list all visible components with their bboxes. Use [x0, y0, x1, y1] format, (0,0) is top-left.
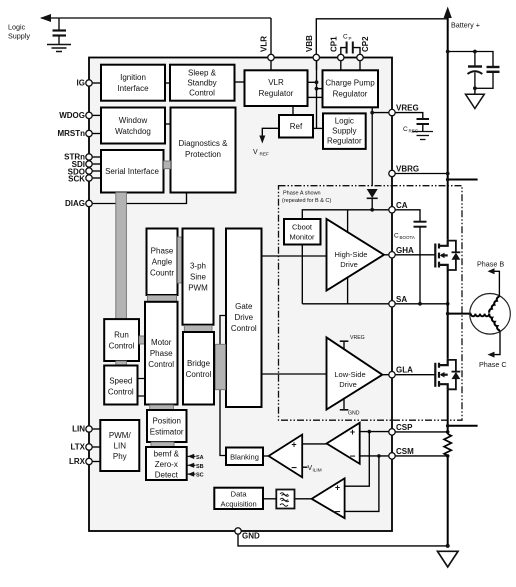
svg-text:Drive: Drive [339, 380, 357, 389]
wire Sleep to VLR Regulator [235, 81, 245, 83]
dashed phase box [279, 186, 463, 421]
op-amp Low-Side Drive [327, 337, 383, 409]
svg-text:IG: IG [77, 79, 85, 88]
wire CP2 stub [353, 48, 360, 55]
wire SDO [89, 170, 101, 172]
block VLR Regulator [245, 70, 308, 106]
svg-text:Drive: Drive [340, 260, 358, 269]
wire LIN [89, 428, 100, 430]
block Serial Interface [101, 150, 164, 193]
svg-text:Supply: Supply [8, 32, 30, 41]
svg-text:CP2: CP2 [361, 36, 370, 52]
wire CSP to data amp [345, 432, 370, 487]
svg-text:Speed: Speed [109, 377, 132, 386]
svg-text:Regulator: Regulator [333, 90, 368, 99]
svg-text:Motor: Motor [151, 338, 172, 347]
block Diagnostics & Protection [171, 108, 236, 193]
svg-text:Phase: Phase [150, 349, 173, 358]
svg-text:Data: Data [231, 490, 248, 499]
svg-text:SCK: SCK [68, 175, 85, 184]
wire CSM pin to shunt [392, 455, 448, 457]
block Charge Pump Regulator [323, 70, 379, 107]
wire IG [89, 82, 101, 84]
wire VREG to CREG [392, 113, 423, 119]
transistor Q low-side [435, 359, 447, 390]
wire VREF arrow [262, 128, 279, 137]
svg-text:+: + [350, 427, 355, 437]
wire gate drive to blanking [220, 316, 226, 456]
pin IG [86, 80, 92, 86]
wire GHA output [384, 254, 435, 256]
junction dot [315, 80, 319, 84]
svg-text:−: − [350, 452, 356, 463]
svg-text:C: C [343, 34, 348, 41]
wire phase A to motor [448, 313, 472, 315]
svg-text:C: C [394, 233, 399, 240]
gray connector bridge to gate drive [215, 344, 225, 389]
svg-text:DIAG: DIAG [65, 199, 85, 208]
wire SDI [89, 163, 101, 165]
svg-text:SA: SA [396, 295, 407, 304]
svg-text:Serial Interface: Serial Interface [105, 167, 159, 176]
pin MRSTn [86, 130, 92, 136]
svg-text:Phase B: Phase B [477, 260, 504, 269]
capacitor bulk electrolytic [468, 52, 483, 89]
svg-text:Ignition: Ignition [120, 73, 146, 82]
wire LRX [89, 461, 100, 463]
svg-text:Watchdog: Watchdog [115, 127, 151, 136]
wire VLR to rail [270, 18, 272, 55]
svg-text:CSM: CSM [396, 447, 414, 456]
svg-text:C: C [403, 126, 408, 133]
gray connector serial to diagnostics [164, 161, 171, 169]
svg-text:CA: CA [396, 201, 408, 210]
pin CA [389, 207, 395, 213]
svg-text:Regulator: Regulator [327, 137, 362, 146]
wire STRn [89, 156, 101, 158]
svg-text:Zero-x: Zero-x [155, 460, 178, 469]
pin STRn [86, 154, 92, 160]
wire WDOG [89, 114, 101, 116]
diode bootstrap [367, 189, 378, 198]
svg-text:Countr: Countr [150, 269, 174, 278]
block Speed Control [104, 366, 137, 405]
svg-text:Phase A shown: Phase A shown [283, 191, 321, 197]
svg-text:LRX: LRX [69, 457, 86, 466]
svg-text:Bridge: Bridge [187, 359, 211, 368]
wire CA to high side supply [347, 210, 349, 233]
arrow Logic Supply [40, 14, 51, 22]
svg-text:VLR: VLR [260, 36, 269, 52]
wire: Logic Supply rail [41, 17, 271, 19]
block Cboot Monitor [284, 219, 321, 245]
svg-text:SC: SC [196, 473, 204, 479]
svg-text:Drive: Drive [234, 313, 253, 322]
svg-text:Control: Control [109, 342, 135, 351]
svg-text:(repeated for B & C): (repeated for B & C) [282, 198, 331, 204]
wire VLR pin to VLR Regulator [270, 61, 272, 71]
svg-text:VREG: VREG [350, 335, 365, 341]
gray connector sine to bridge [184, 326, 212, 332]
pin VREG [389, 109, 395, 115]
svg-text:Diagnostics &: Diagnostics & [179, 139, 229, 148]
svg-text:−: − [291, 463, 297, 474]
capacitor CBOOTA [414, 222, 427, 227]
wire CP1 stub [341, 48, 346, 55]
svg-text:Phy: Phy [113, 452, 127, 461]
svg-text:High-Side: High-Side [335, 250, 368, 259]
block Ignition Interface [101, 65, 165, 101]
wire VLR right to VBB vertical [308, 81, 317, 83]
svg-text:Sleep &: Sleep & [188, 69, 217, 78]
svg-text:P: P [349, 36, 352, 41]
phase B lead [493, 271, 500, 296]
svg-text:Cboot: Cboot [292, 223, 313, 232]
svg-text:Logic: Logic [8, 23, 26, 32]
svg-text:GHA: GHA [396, 246, 414, 255]
svg-text:REG: REG [409, 129, 419, 134]
block Bridge Control [183, 332, 214, 405]
gray bus serial interface [116, 193, 127, 320]
wire VBRG to battery rail [392, 173, 448, 175]
pin SCK [86, 175, 92, 181]
wire SCK [89, 177, 101, 179]
svg-text:Acquisition: Acquisition [220, 500, 256, 509]
pin CP1 [338, 54, 344, 60]
svg-text:Supply: Supply [332, 127, 356, 136]
capacitor CP [347, 42, 353, 54]
wire Ignition to Sleep [165, 82, 170, 84]
block Motor Phase Control [145, 302, 178, 405]
svg-text:Control: Control [108, 388, 134, 397]
body diode Q high-side [448, 241, 461, 270]
svg-text:REF: REF [260, 152, 270, 157]
block Phase Angle Countr [147, 229, 178, 296]
wire GLA output [382, 374, 435, 376]
wire low side drive input [262, 373, 327, 375]
arrows SA SB SC into bemf [187, 456, 196, 474]
ground triangle battery caps [466, 88, 485, 108]
arrow battery top [444, 7, 452, 19]
wire VLR to Charge Pump [308, 96, 323, 98]
pin SDO [86, 168, 92, 174]
capacitor CREG [417, 119, 430, 124]
wire bridge rail stub to other phases [448, 179, 478, 181]
wire diode to CA [371, 198, 373, 210]
block Blanking [226, 448, 263, 466]
pin DIAG [86, 200, 92, 206]
wire charge pump to VREG [371, 107, 373, 186]
pin SA [389, 301, 395, 307]
op-amp sense amp [327, 423, 360, 464]
svg-text:GND: GND [242, 532, 260, 541]
resistor R sense [444, 434, 451, 456]
wire battery decoupling branch [448, 52, 493, 67]
ground triangle main [438, 551, 459, 567]
VREG stub low side [343, 342, 345, 350]
gray connector motor phase to position [150, 405, 174, 410]
wire GND pin to ground [238, 531, 448, 546]
svg-text:VLR: VLR [268, 78, 284, 87]
block bemf Zero-x Detect [146, 447, 187, 480]
pin WDOG [86, 112, 92, 118]
svg-text:CSP: CSP [396, 423, 413, 432]
svg-text:Logic: Logic [335, 117, 354, 126]
wire speed to motor phase (2 short) [138, 379, 146, 397]
svg-text:Angle: Angle [152, 258, 173, 267]
svg-text:Standby: Standby [187, 79, 216, 88]
svg-text:VREG: VREG [396, 104, 419, 113]
main IC box [89, 58, 392, 532]
svg-text:LTX: LTX [70, 443, 85, 452]
capacitor C logic supply [53, 18, 67, 44]
svg-text:ILIM: ILIM [313, 467, 322, 472]
battery rail [447, 14, 449, 240]
gray connector position to bemf [151, 442, 174, 447]
svg-text:Low-Side: Low-Side [334, 370, 365, 379]
svg-text:Protection: Protection [185, 150, 221, 159]
svg-text:GND: GND [348, 411, 360, 417]
svg-text:Gate: Gate [235, 302, 253, 311]
svg-text:Estimator: Estimator [150, 428, 184, 437]
wire CSP pin to shunt [392, 431, 448, 433]
svg-text:LIN: LIN [72, 425, 85, 434]
pin GLA [389, 372, 395, 378]
wire CP2 pin to Charge Pump [359, 61, 361, 71]
pin LRX [86, 458, 92, 464]
wire VBB vertical [316, 55, 318, 129]
wire CSM to data amp [345, 456, 379, 512]
phase C lead [493, 330, 501, 354]
power rail between FETs [447, 270, 449, 359]
wire CA net [302, 210, 392, 219]
pin CSP [389, 429, 395, 435]
svg-text:VBB: VBB [305, 35, 314, 52]
svg-text:Blanking: Blanking [230, 453, 259, 462]
GND stub low side [343, 398, 345, 410]
block Run Control [104, 319, 139, 361]
svg-text:Position: Position [152, 417, 180, 426]
ground CREG [413, 132, 434, 140]
wire VBB to battery rail [316, 19, 447, 55]
wire Ref to Logic Supply Regulator [313, 127, 323, 129]
svg-text:PWM: PWM [188, 284, 208, 293]
svg-text:+: + [335, 483, 340, 493]
svg-text:CP1: CP1 [330, 36, 339, 52]
op-amp High-Side Drive [327, 219, 385, 291]
svg-text:3-ph: 3-ph [190, 262, 206, 271]
block Data Acquisition [214, 488, 263, 509]
pin LIN [86, 426, 92, 432]
svg-text:Run: Run [114, 331, 129, 340]
wire Window Watchdog to Diagnostics [165, 123, 171, 125]
wire LTX [89, 446, 100, 448]
wire CSP net [360, 431, 392, 433]
motor windings [470, 294, 511, 335]
svg-text:Sine: Sine [190, 273, 207, 282]
wire amp to filter [295, 498, 312, 500]
svg-text:LIN: LIN [114, 442, 127, 451]
svg-text:V: V [253, 149, 258, 156]
pin CP2 [357, 54, 363, 60]
gray connector phase angle bottom [148, 296, 177, 302]
transistor Q high-side [435, 240, 447, 271]
block Window Watchdog [101, 108, 165, 144]
pin GHA [389, 252, 395, 258]
svg-text:BOOTA: BOOTA [400, 235, 415, 240]
pin CSM [389, 453, 395, 459]
svg-text:SA: SA [196, 455, 204, 461]
wire VLR Regulator to Ref [292, 106, 294, 115]
wire high side drive input [262, 255, 327, 257]
body diode Q low-side [448, 360, 461, 389]
wire DIAG to Diagnostics bottom [89, 193, 187, 204]
svg-text:Phase C: Phase C [479, 360, 507, 369]
svg-text:PWM/: PWM/ [109, 431, 132, 440]
svg-text:VBRG: VBRG [396, 165, 419, 174]
gray connector run to motor phase [139, 336, 145, 344]
wire CP1 pin to Charge Pump [340, 61, 342, 71]
wire low side source stub to other phases [448, 425, 478, 427]
block Logic Supply Regulator [323, 113, 366, 148]
wire VBB to Charge Pump [317, 88, 323, 90]
gray connector phase angle to sine [178, 237, 183, 283]
wire filter to data acquisition [263, 498, 276, 500]
svg-text:Phase: Phase [151, 247, 174, 256]
svg-text:Charge Pump: Charge Pump [325, 79, 375, 88]
block 3-ph Sine PWM [183, 229, 214, 325]
wire VILIM stub [302, 466, 307, 468]
pin GND [235, 528, 241, 534]
wire Cboot Monitor to SA [301, 245, 303, 304]
capacitor ceramic [475, 67, 500, 88]
wire CSM net [360, 455, 392, 457]
svg-text:Monitor: Monitor [289, 233, 315, 242]
block PWM LIN Phy [100, 420, 139, 471]
block Ref [279, 115, 313, 138]
svg-text:Interface: Interface [117, 84, 149, 93]
svg-text:SB: SB [196, 464, 204, 470]
block Position Estimator [147, 410, 187, 442]
svg-text:WDOG: WDOG [59, 111, 85, 120]
svg-text:Control: Control [148, 360, 174, 369]
pin SDI [86, 161, 92, 167]
svg-text:Regulator: Regulator [259, 89, 294, 98]
op-amp data acquisition amp [312, 478, 345, 518]
svg-text:+: + [291, 440, 296, 450]
svg-text:bemf &: bemf & [154, 450, 180, 459]
gray connector run to speed [116, 361, 127, 366]
power rail below low FET [447, 390, 449, 434]
block Gate Drive Control [226, 229, 262, 408]
svg-text:Control: Control [189, 89, 215, 98]
wire VBB pin down [316, 61, 318, 71]
svg-text:Control: Control [186, 370, 212, 379]
svg-text:Detect: Detect [155, 471, 179, 480]
pin VBRG [389, 170, 395, 176]
ground (3-bar) logic supply [47, 45, 71, 52]
svg-text:GLA: GLA [396, 366, 413, 375]
wire high side to SA [347, 277, 349, 304]
wire MRSTn [89, 133, 101, 135]
filter block [276, 490, 294, 509]
svg-text:−: − [335, 507, 341, 518]
wire CA extension to CBOOTA [392, 210, 420, 221]
op-amp current limit comparator [263, 455, 269, 457]
svg-text:Control: Control [231, 324, 257, 333]
pin VBB [313, 54, 319, 60]
wire SA net [302, 303, 447, 305]
svg-text:MRSTn: MRSTn [57, 129, 85, 138]
wire comp2 out to comp1 [302, 443, 326, 445]
block Sleep & Standby Control [170, 65, 235, 101]
svg-text:Ref: Ref [290, 122, 303, 131]
svg-text:Window: Window [119, 116, 148, 125]
pin VLR [268, 54, 274, 60]
pin LTX [86, 444, 92, 450]
svg-text:Battery +: Battery + [451, 21, 480, 30]
